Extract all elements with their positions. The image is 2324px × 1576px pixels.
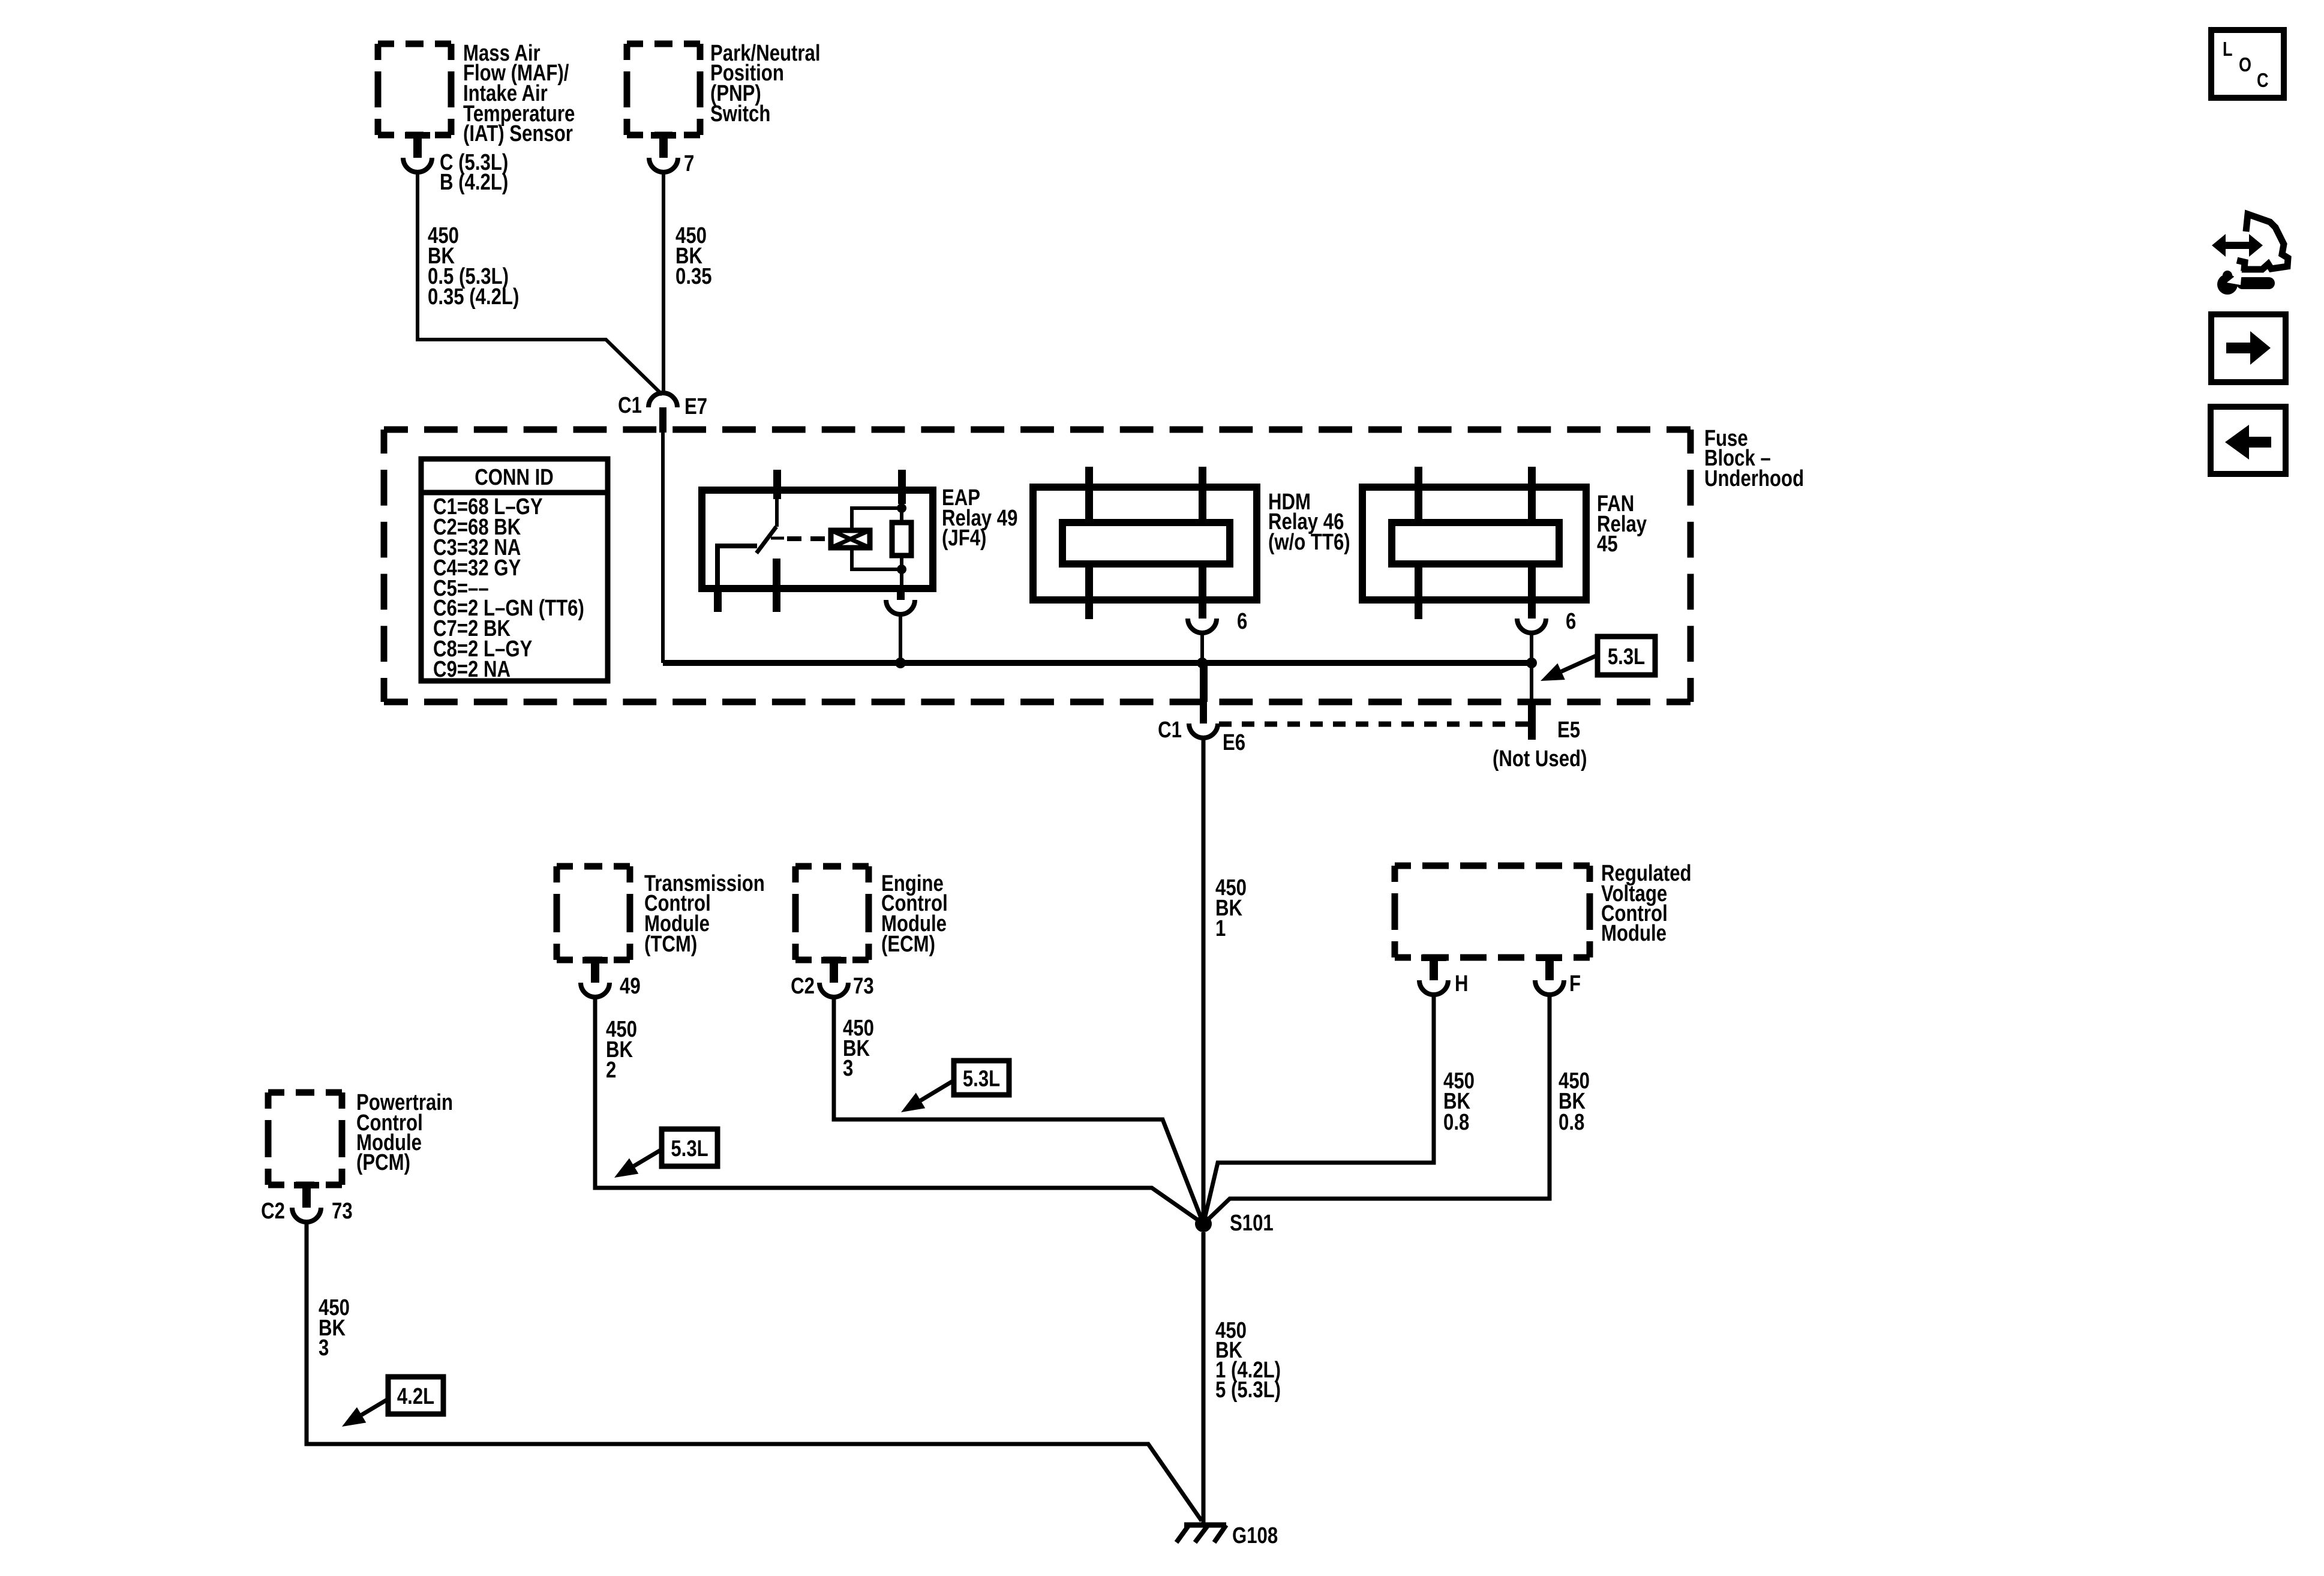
svg-text:73: 73 xyxy=(853,974,874,999)
svg-text:0.8: 0.8 xyxy=(1559,1110,1584,1135)
svg-text:L: L xyxy=(2223,39,2233,61)
svg-text:2: 2 xyxy=(606,1058,616,1083)
svg-text:B (4.2L): B (4.2L) xyxy=(440,170,508,195)
svg-text:CONN ID: CONN ID xyxy=(475,465,554,490)
svg-text:S101: S101 xyxy=(1230,1211,1274,1236)
svg-text:45: 45 xyxy=(1597,532,1618,557)
svg-text:0.35 (4.2L): 0.35 (4.2L) xyxy=(428,284,519,310)
svg-text:O: O xyxy=(2239,55,2251,76)
svg-text:C1: C1 xyxy=(618,393,642,418)
svg-text:3: 3 xyxy=(843,1056,853,1081)
svg-text:(w/o TT6): (w/o TT6) xyxy=(1268,530,1350,555)
svg-text:0.35: 0.35 xyxy=(675,264,712,289)
svg-text:(TCM): (TCM) xyxy=(644,932,697,957)
svg-text:H: H xyxy=(1455,971,1469,996)
svg-text:E5: E5 xyxy=(1557,718,1580,743)
svg-text:0.8: 0.8 xyxy=(1443,1110,1469,1135)
svg-text:5.3L: 5.3L xyxy=(963,1067,1000,1092)
svg-text:C1: C1 xyxy=(1158,718,1182,743)
svg-text:C: C xyxy=(2257,70,2269,92)
svg-text:1: 1 xyxy=(1215,916,1226,941)
svg-text:(IAT) Sensor: (IAT) Sensor xyxy=(463,121,573,146)
svg-text:(JF4): (JF4) xyxy=(942,526,986,551)
svg-text:(ECM): (ECM) xyxy=(881,932,935,957)
svg-text:5 (5.3L): 5 (5.3L) xyxy=(1215,1377,1281,1403)
svg-text:Module: Module xyxy=(1601,921,1667,946)
svg-text:6: 6 xyxy=(1237,609,1247,634)
svg-text:(PCM): (PCM) xyxy=(356,1150,410,1175)
svg-text:4.2L: 4.2L xyxy=(397,1384,434,1409)
svg-text:73: 73 xyxy=(332,1199,353,1224)
svg-text:C2: C2 xyxy=(261,1199,285,1224)
svg-text:(Not Used): (Not Used) xyxy=(1493,746,1587,772)
svg-text:F: F xyxy=(1569,971,1581,996)
svg-text:C9=2 NA: C9=2 NA xyxy=(433,657,511,682)
svg-text:49: 49 xyxy=(620,974,641,999)
svg-text:6: 6 xyxy=(1566,609,1576,634)
svg-text:E7: E7 xyxy=(684,394,707,419)
svg-text:Underhood: Underhood xyxy=(1704,466,1804,491)
svg-text:Switch: Switch xyxy=(710,101,770,127)
svg-text:7: 7 xyxy=(684,151,694,176)
svg-text:3: 3 xyxy=(319,1335,329,1361)
svg-text:E6: E6 xyxy=(1223,730,1245,755)
svg-text:C2: C2 xyxy=(791,974,815,999)
svg-text:5.3L: 5.3L xyxy=(671,1136,708,1161)
svg-text:G108: G108 xyxy=(1232,1523,1278,1548)
svg-text:5.3L: 5.3L xyxy=(1608,644,1645,670)
